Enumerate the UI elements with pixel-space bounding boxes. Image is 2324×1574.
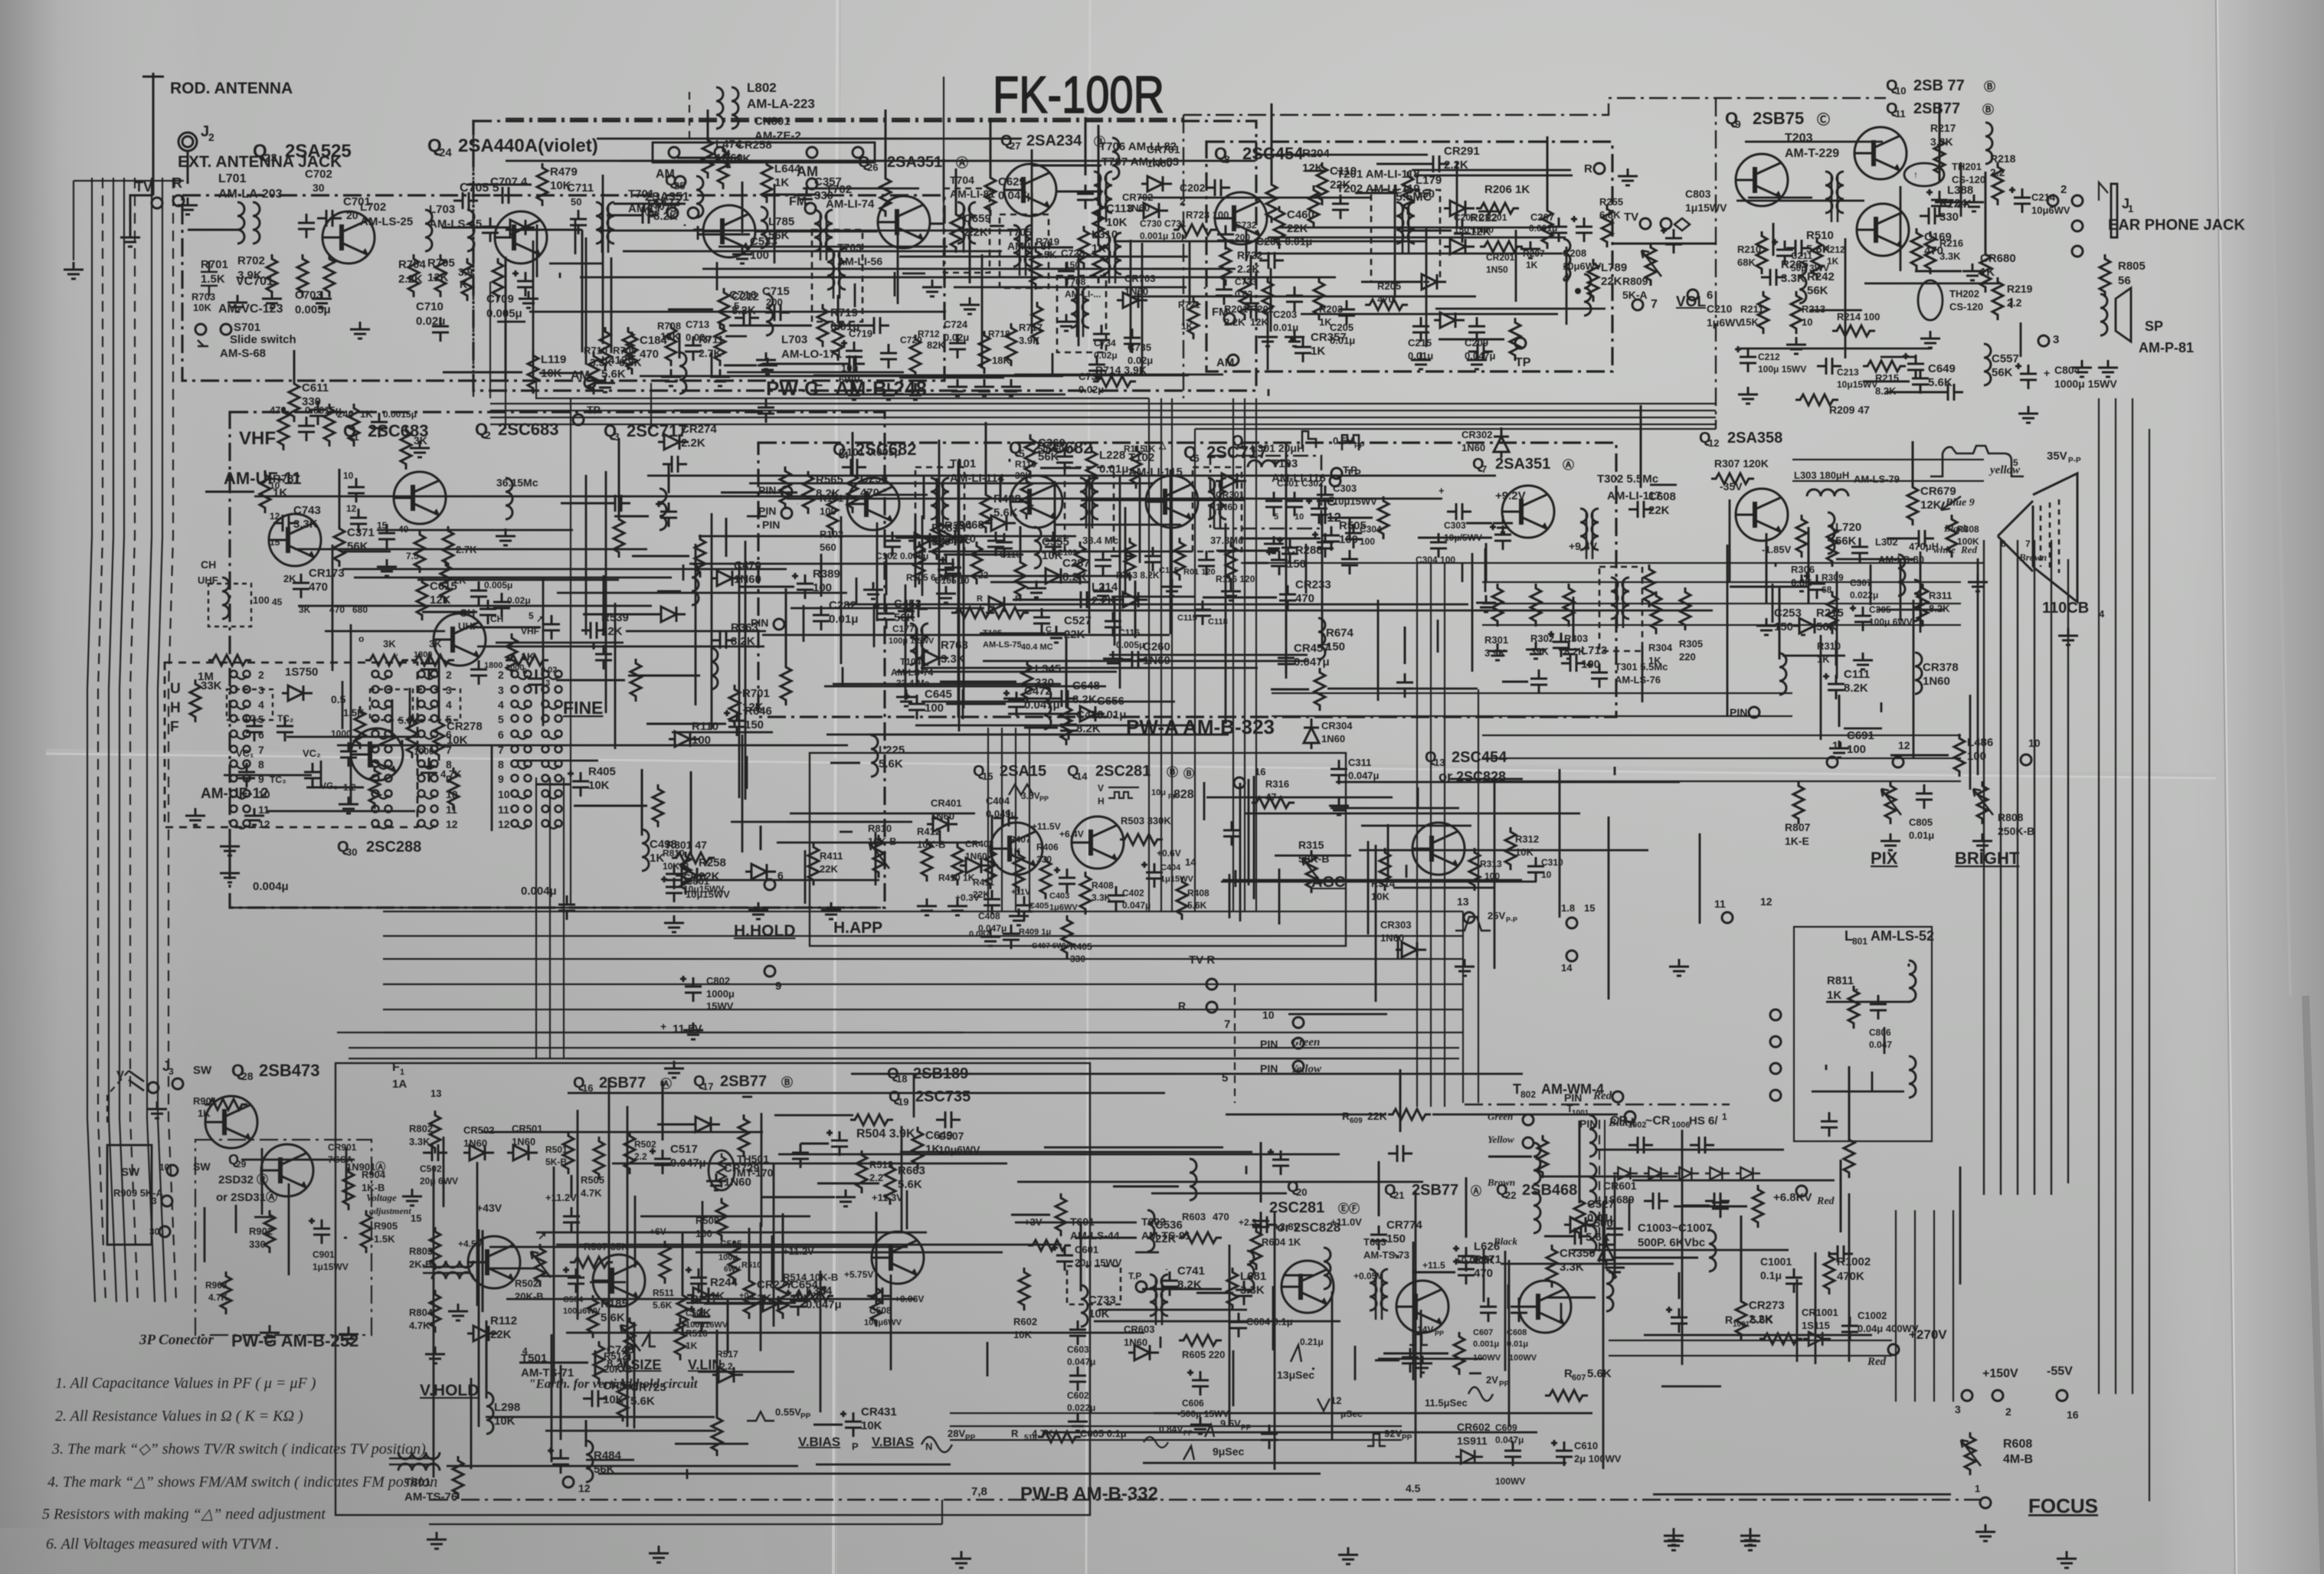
svg-text:0.1μ: 0.1μ <box>1760 1269 1782 1281</box>
svg-text:0.01μ: 0.01μ <box>1099 463 1128 476</box>
svg-text:C734: C734 <box>1094 338 1116 349</box>
svg-text:R112: R112 <box>490 1314 517 1327</box>
svg-text:1800: 1800 <box>484 661 502 670</box>
svg-text:C608: C608 <box>1648 490 1676 503</box>
svg-text:C536: C536 <box>1155 1219 1183 1232</box>
svg-text:2.2: 2.2 <box>869 1172 883 1183</box>
svg-text:R209 47: R209 47 <box>1829 404 1870 416</box>
svg-text:L626: L626 <box>1474 1240 1500 1253</box>
svg-text:2SC281: 2SC281 <box>1095 763 1151 780</box>
svg-text:ⒺⒻ: ⒺⒻ <box>1338 1203 1360 1215</box>
svg-text:CR502: CR502 <box>463 1124 494 1136</box>
svg-text:9μSec: 9μSec <box>1213 1445 1244 1458</box>
svg-text:17: 17 <box>702 1081 713 1092</box>
svg-text:Ⓑ: Ⓑ <box>1982 103 1994 116</box>
svg-text:330: 330 <box>1939 211 1959 224</box>
svg-text:T704: T704 <box>950 174 974 186</box>
svg-text:+6.4V: +6.4V <box>1059 829 1084 839</box>
svg-text:0.001μ: 0.001μ <box>1473 1340 1499 1349</box>
svg-text:2SC288: 2SC288 <box>366 839 421 856</box>
svg-text:C691: C691 <box>1847 729 1874 742</box>
svg-text:2SA15: 2SA15 <box>1000 763 1046 780</box>
svg-text:AM: AM <box>656 168 675 181</box>
svg-text:1N50: 1N50 <box>1486 264 1508 275</box>
svg-text:20K-B: 20K-B <box>515 1291 544 1302</box>
svg-text:R763: R763 <box>941 639 968 652</box>
svg-text:UHF: UHF <box>198 574 218 586</box>
svg-text:PP: PP <box>1402 1434 1412 1442</box>
svg-text:25V: 25V <box>1488 910 1505 921</box>
svg-text:+: + <box>2044 367 2050 379</box>
svg-text:2SA351: 2SA351 <box>887 154 942 171</box>
svg-text:+11.5: +11.5 <box>1422 1260 1445 1271</box>
svg-text:0.047μ: 0.047μ <box>1495 1435 1524 1445</box>
svg-text:K: K <box>460 278 467 290</box>
svg-text:C659: C659 <box>964 212 991 225</box>
svg-text:2V: 2V <box>1486 1374 1498 1386</box>
svg-text:0.55V: 0.55V <box>775 1406 801 1418</box>
svg-text:C470: C470 <box>734 559 761 572</box>
svg-text:C111: C111 <box>1844 668 1870 681</box>
svg-text:L228: L228 <box>1099 449 1125 462</box>
svg-text:R210: R210 <box>1737 244 1761 255</box>
svg-text:1μ15WV: 1μ15WV <box>1160 875 1193 884</box>
svg-text:4. The mark “△” shows FM/AM sw: 4. The mark “△” shows FM/AM switch ( ind… <box>47 1474 437 1491</box>
svg-text:6.8K: 6.8K <box>1599 209 1621 221</box>
svg-text:100: 100 <box>1581 658 1600 671</box>
svg-text:1K: 1K <box>650 852 664 865</box>
svg-text:10K: 10K <box>1106 216 1128 229</box>
svg-text:C287: C287 <box>1062 557 1090 570</box>
svg-text:11: 11 <box>498 803 509 816</box>
svg-text:470: 470 <box>1295 592 1314 605</box>
svg-text:1N60: 1N60 <box>715 152 743 165</box>
svg-text:SW: SW <box>121 1166 140 1179</box>
svg-text:10μ15WV: 10μ15WV <box>1333 496 1377 507</box>
svg-text:12K: 12K <box>1920 499 1942 512</box>
svg-text:22: 22 <box>1505 1189 1516 1201</box>
svg-text:1K: 1K <box>198 1108 211 1119</box>
svg-text:C502: C502 <box>420 1163 442 1174</box>
svg-text:CR431: CR431 <box>861 1405 897 1419</box>
svg-text:100μ: 100μ <box>718 1253 738 1262</box>
svg-text:L702: L702 <box>360 201 386 214</box>
svg-text:C282: C282 <box>829 599 856 612</box>
svg-text:2SB 77: 2SB 77 <box>1913 77 1965 94</box>
svg-text:2SB468: 2SB468 <box>1522 1182 1577 1199</box>
svg-text:or 2SD31Ⓐ: or 2SD31Ⓐ <box>216 1190 277 1204</box>
svg-text:7.5: 7.5 <box>406 551 419 561</box>
svg-text:R102: R102 <box>820 528 843 540</box>
svg-text:R258: R258 <box>699 856 726 869</box>
svg-text:C804: C804 <box>2054 364 2080 376</box>
svg-text:PP: PP <box>965 1434 976 1442</box>
svg-text:1.8: 1.8 <box>1561 902 1575 914</box>
svg-text:C615: C615 <box>430 580 457 593</box>
svg-text:C470: C470 <box>1076 708 1104 722</box>
svg-text:37.3Mc: 37.3Mc <box>1210 535 1243 546</box>
svg-text:R702: R702 <box>237 254 265 267</box>
svg-text:C803: C803 <box>1685 188 1711 200</box>
svg-text:PIN: PIN <box>758 484 776 496</box>
svg-text:CR357: CR357 <box>1311 331 1347 344</box>
svg-text:PP: PP <box>800 1412 811 1421</box>
svg-text:22K: 22K <box>1287 222 1308 235</box>
svg-text:9: 9 <box>498 773 504 785</box>
svg-text:FINE: FINE <box>563 698 603 718</box>
svg-text:HS 6/: HS 6/ <box>1689 1114 1718 1127</box>
svg-text:TV: TV <box>1624 211 1638 224</box>
svg-text:7,8: 7,8 <box>971 1485 987 1498</box>
svg-text:10: 10 <box>1262 1009 1275 1021</box>
svg-text:AM-UF-12: AM-UF-12 <box>201 786 269 802</box>
svg-text:16: 16 <box>2067 1409 2079 1421</box>
svg-text:R242: R242 <box>1807 270 1835 283</box>
svg-text:56K: 56K <box>1038 450 1059 463</box>
svg-text:R1002: R1002 <box>1837 1255 1871 1268</box>
svg-text:PW-C: PW-C <box>766 377 819 400</box>
svg-text:22K: 22K <box>1330 178 1351 191</box>
svg-text:1N60: 1N60 <box>1321 733 1345 744</box>
svg-text:0.01μ: 0.01μ <box>829 613 858 626</box>
svg-text:100: 100 <box>696 1228 712 1239</box>
svg-text:R502: R502 <box>515 1278 538 1289</box>
svg-text:607: 607 <box>1572 1373 1586 1383</box>
svg-text:3.3K: 3.3K <box>293 518 318 531</box>
svg-text:0.001μ 10μ: 0.001μ 10μ <box>1140 231 1187 241</box>
svg-text:+0.6V: +0.6V <box>1157 848 1181 859</box>
svg-text:CR901: CR901 <box>328 1142 357 1153</box>
svg-text:R603: R603 <box>1182 1211 1206 1222</box>
svg-text:C203: C203 <box>1273 309 1297 320</box>
svg-text:T302 5.5Mc: T302 5.5Mc <box>1597 473 1658 486</box>
svg-text:C703: C703 <box>295 289 322 302</box>
svg-text:R304: R304 <box>1648 642 1673 653</box>
svg-text:C555: C555 <box>1042 535 1069 548</box>
svg-text:5.6K: 5.6K <box>1187 900 1207 911</box>
svg-text:+11V: +11V <box>1011 888 1031 897</box>
svg-text:C184: C184 <box>640 334 668 347</box>
svg-text:C360: C360 <box>1038 437 1065 450</box>
svg-text:Red: Red <box>1592 1090 1612 1102</box>
svg-text:10K: 10K <box>494 1415 516 1428</box>
svg-text:Ⓒ: Ⓒ <box>1817 112 1830 127</box>
svg-text:6: 6 <box>1241 440 1246 452</box>
svg-text:FOCUS: FOCUS <box>2028 1494 2098 1517</box>
svg-text:1001: 1001 <box>1572 1109 1589 1118</box>
svg-text:Green: Green <box>1488 1111 1513 1122</box>
svg-text:R787: R787 <box>273 473 300 486</box>
svg-text:R904: R904 <box>362 1169 386 1180</box>
svg-text:0.01μ: 0.01μ <box>1909 830 1934 841</box>
svg-text:10K: 10K <box>447 734 468 747</box>
svg-text:0.004μ: 0.004μ <box>253 880 289 893</box>
svg-text:R505: R505 <box>1339 519 1367 532</box>
svg-text:3.3K: 3.3K <box>941 653 965 666</box>
svg-text:+9.4V: +9.4V <box>1569 540 1598 552</box>
svg-text:C253: C253 <box>1774 607 1802 620</box>
svg-text:R217: R217 <box>1930 122 1956 134</box>
svg-text:7: 7 <box>1481 463 1487 475</box>
svg-text:0.005μ: 0.005μ <box>486 307 522 320</box>
svg-text:C303: C303 <box>1333 483 1357 494</box>
svg-text:6. All Voltages measured with: 6. All Voltages measured with VTVM . <box>46 1536 279 1553</box>
svg-text:+11.0V: +11.0V <box>1331 1216 1362 1228</box>
svg-text:56K: 56K <box>1835 535 1857 548</box>
svg-text:2SC281: 2SC281 <box>1269 1199 1324 1216</box>
svg-text:AM-P-81: AM-P-81 <box>2139 340 2194 355</box>
svg-text:L789: L789 <box>1601 261 1627 274</box>
svg-text:2SB77: 2SB77 <box>720 1073 767 1090</box>
svg-text:24: 24 <box>439 146 452 159</box>
svg-text:56: 56 <box>2118 274 2131 287</box>
svg-text:white: white <box>1933 544 1956 555</box>
svg-text:C357: C357 <box>814 175 842 188</box>
svg-text:+5.75V: +5.75V <box>844 1269 873 1280</box>
svg-text:0.02μ: 0.02μ <box>507 595 531 606</box>
svg-text:10K: 10K <box>1371 891 1389 902</box>
svg-text:R315: R315 <box>1298 839 1324 851</box>
svg-text:2.2K: 2.2K <box>964 226 988 239</box>
svg-text:Slide switch: Slide switch <box>230 333 296 346</box>
svg-text:1N60: 1N60 <box>1147 157 1173 169</box>
svg-text:R405: R405 <box>1070 941 1092 952</box>
svg-text:R408: R408 <box>1092 880 1114 891</box>
svg-text:N: N <box>925 1441 932 1452</box>
svg-text:CN801: CN801 <box>754 115 790 128</box>
svg-text:470: 470 <box>270 404 286 416</box>
svg-text:4: 4 <box>258 699 264 711</box>
svg-text:20: 20 <box>1296 1186 1307 1198</box>
svg-text:8: 8 <box>258 758 264 771</box>
svg-text:C403: C403 <box>1049 892 1069 901</box>
svg-text:0.0015μ: 0.0015μ <box>383 409 417 420</box>
svg-text:VC₂: VC₂ <box>303 748 321 759</box>
svg-text:470: 470 <box>1213 1211 1229 1222</box>
svg-text:7: 7 <box>258 744 264 756</box>
svg-text:10: 10 <box>1295 512 1304 522</box>
svg-text:R712: R712 <box>918 329 940 339</box>
svg-text:5.6K: 5.6K <box>601 1311 625 1324</box>
svg-text:23: 23 <box>264 152 277 165</box>
svg-text:R405: R405 <box>588 765 616 778</box>
svg-text:Ⓐ: Ⓐ <box>956 155 968 170</box>
svg-text:6: 6 <box>1707 289 1713 302</box>
svg-text:0.5: 0.5 <box>331 693 346 705</box>
svg-text:CR303: CR303 <box>1380 919 1411 931</box>
svg-text:PIX: PIX <box>1871 849 1898 868</box>
svg-text:92V: 92V <box>1384 1428 1402 1439</box>
svg-text:1K: 1K <box>686 1340 698 1351</box>
svg-text:500P. 6KVbc: 500P. 6KVbc <box>1638 1236 1705 1249</box>
svg-text:1N60: 1N60 <box>734 573 761 586</box>
svg-text:100: 100 <box>813 581 832 594</box>
svg-text:15K: 15K <box>1740 316 1759 328</box>
svg-text:C611: C611 <box>302 381 329 394</box>
svg-text:45: 45 <box>272 597 283 607</box>
svg-text:C210: C210 <box>1707 303 1733 315</box>
svg-text:2. All Resistance Values in Ω: 2. All Resistance Values in Ω ( K = KΩ ) <box>55 1408 303 1425</box>
svg-text:2.7K: 2.7K <box>699 347 722 359</box>
svg-text:C260: C260 <box>1143 640 1170 653</box>
svg-text:TC₁: TC₁ <box>244 713 260 724</box>
svg-text:1006: 1006 <box>1671 1121 1690 1130</box>
svg-text:H.APP: H.APP <box>833 919 882 937</box>
svg-text:TH202: TH202 <box>1949 288 1979 299</box>
svg-text:2: 2 <box>2061 183 2067 196</box>
svg-text:L301 20μH: L301 20μH <box>1251 442 1304 454</box>
svg-text:C460: C460 <box>1287 208 1314 221</box>
svg-text:4: 4 <box>522 1346 528 1356</box>
svg-text:36.15Mc: 36.15Mc <box>496 476 538 489</box>
svg-text:C527: C527 <box>1064 614 1092 627</box>
svg-text:4: 4 <box>2099 608 2105 620</box>
svg-text:R602: R602 <box>1013 1316 1037 1327</box>
svg-text:R511: R511 <box>653 1288 674 1298</box>
svg-text:50: 50 <box>571 196 581 208</box>
svg-text:C215: C215 <box>1408 337 1432 349</box>
svg-text:150: 150 <box>1774 620 1793 633</box>
svg-text:TP: TP <box>1515 356 1531 369</box>
svg-text:10μ15WV: 10μ15WV <box>686 888 730 900</box>
svg-text:9.5V: 9.5V <box>1220 1418 1241 1429</box>
svg-text:56K: 56K <box>347 540 368 553</box>
svg-text:VC₁: VC₁ <box>236 748 254 759</box>
svg-text:↗: ↗ <box>538 1229 547 1242</box>
svg-text:TV R: TV R <box>1189 954 1215 967</box>
svg-text:R116 120: R116 120 <box>1216 574 1255 584</box>
svg-text:12: 12 <box>578 1482 591 1494</box>
svg-text:R311: R311 <box>1929 590 1952 601</box>
svg-text:R: R <box>977 594 983 604</box>
svg-text:2.2K: 2.2K <box>681 437 705 450</box>
svg-text:100μ6WV: 100μ6WV <box>864 1318 902 1327</box>
svg-text:T.P: T.P <box>1347 467 1361 479</box>
svg-text:R305: R305 <box>1679 638 1703 650</box>
svg-text:R663: R663 <box>898 1164 925 1177</box>
svg-text:H.HOLD: H.HOLD <box>734 922 796 940</box>
svg-text:BRIGHT: BRIGHT <box>1955 849 2020 868</box>
svg-text:2SA440A(violet): 2SA440A(violet) <box>458 136 598 156</box>
svg-text:C743: C743 <box>293 504 321 517</box>
svg-text:100WV: 100WV <box>1509 1353 1537 1363</box>
svg-text:0.047μ: 0.047μ <box>1067 1356 1095 1367</box>
svg-text:Red: Red <box>1867 1356 1887 1368</box>
svg-text:CR273: CR273 <box>1749 1299 1785 1312</box>
svg-text:1μ15WV: 1μ15WV <box>1685 201 1727 214</box>
svg-text:0.01μ: 0.01μ <box>830 320 859 333</box>
svg-text:L179: L179 <box>1416 174 1442 187</box>
svg-text:1: 1 <box>1722 1111 1727 1122</box>
svg-text:C101 0.005μ: C101 0.005μ <box>839 446 901 458</box>
svg-text:2.2K: 2.2K <box>1224 316 1245 328</box>
svg-text:CR291: CR291 <box>1444 145 1480 158</box>
svg-text:C603: C603 <box>1067 1344 1089 1355</box>
svg-text:1N60: 1N60 <box>1380 932 1404 944</box>
svg-text:22K: 22K <box>820 863 838 875</box>
svg-text:C404: C404 <box>1160 863 1181 872</box>
svg-text:2: 2 <box>498 669 504 681</box>
svg-text:C517: C517 <box>670 1143 698 1156</box>
svg-text:3.5V: 3.5V <box>1021 790 1040 801</box>
svg-text:L310: L310 <box>1092 228 1118 241</box>
svg-text:CR274: CR274 <box>681 423 717 436</box>
svg-text:↘: ↘ <box>1392 1249 1400 1261</box>
svg-text:5: 5 <box>529 610 534 621</box>
svg-text:7: 7 <box>2025 538 2031 549</box>
svg-text:H: H <box>1098 796 1105 807</box>
svg-text:2SC683: 2SC683 <box>498 420 559 439</box>
svg-text:2SB75: 2SB75 <box>1753 109 1804 128</box>
svg-text:13μSec: 13μSec <box>1277 1369 1314 1381</box>
svg-text:2: 2 <box>2005 1405 2011 1418</box>
svg-text:V: V <box>1098 783 1104 794</box>
svg-text:C110: C110 <box>1330 165 1357 178</box>
svg-text:1000μ 15WV: 1000μ 15WV <box>2054 378 2117 390</box>
svg-text:82K: 82K <box>927 339 945 351</box>
svg-text:11: 11 <box>1714 898 1726 910</box>
svg-text:CR701: CR701 <box>1147 143 1180 155</box>
svg-text:R215: R215 <box>1816 607 1844 620</box>
svg-text:C713: C713 <box>686 319 709 330</box>
svg-text:R802: R802 <box>409 1123 433 1134</box>
svg-text:FK-100R: FK-100R <box>993 66 1164 124</box>
svg-text:R704: R704 <box>398 258 427 271</box>
svg-text:PIN: PIN <box>762 519 780 531</box>
svg-text:CR288: CR288 <box>1287 544 1323 557</box>
svg-text:1μ6WV: 1μ6WV <box>1707 316 1743 329</box>
svg-text:C645: C645 <box>925 688 952 701</box>
svg-text:2K-B: 2K-B <box>409 1258 432 1270</box>
svg-text:C607: C607 <box>1473 1328 1493 1337</box>
svg-text:adjustment: adjustment <box>369 1206 411 1216</box>
svg-text:R502: R502 <box>634 1139 656 1150</box>
svg-text:0.004μ: 0.004μ <box>521 885 557 898</box>
svg-text:10K: 10K <box>588 779 610 792</box>
svg-text:AM-S-68: AM-S-68 <box>220 347 266 360</box>
svg-text:56K: 56K <box>1807 284 1828 297</box>
svg-text:R213: R213 <box>1802 303 1825 315</box>
svg-text:1800: 1800 <box>414 650 432 659</box>
svg-text:11.5μSec: 11.5μSec <box>1425 1397 1468 1409</box>
svg-text:8.2K: 8.2K <box>1844 682 1868 695</box>
svg-text:+9.2V: +9.2V <box>1495 489 1526 502</box>
svg-text:2SA525: 2SA525 <box>285 141 352 162</box>
svg-text:R501: R501 <box>545 1144 568 1155</box>
svg-text:F: F <box>170 719 179 735</box>
svg-text:15: 15 <box>1584 902 1595 914</box>
svg-text:C303: C303 <box>1444 520 1466 531</box>
svg-text:560: 560 <box>820 542 836 553</box>
svg-text:+: + <box>1439 485 1445 496</box>
svg-text:ROD. ANTENNA: ROD. ANTENNA <box>170 80 293 97</box>
svg-text:470: 470 <box>1377 293 1394 305</box>
svg-text:3.3K: 3.3K <box>409 1136 430 1147</box>
svg-text:Ⓐ: Ⓐ <box>1471 1185 1481 1197</box>
svg-text:C212: C212 <box>732 290 759 303</box>
svg-text:8: 8 <box>498 758 504 771</box>
svg-text:R701: R701 <box>742 687 770 700</box>
svg-text:L703: L703 <box>429 203 455 216</box>
svg-text:L474: L474 <box>715 138 742 151</box>
svg-text:330: 330 <box>814 189 833 202</box>
svg-text:R307 120K: R307 120K <box>1714 457 1769 470</box>
svg-text:10: 10 <box>1895 85 1906 97</box>
svg-text:T801: T801 <box>404 1476 430 1489</box>
svg-text:C702: C702 <box>305 168 332 181</box>
svg-text:12: 12 <box>1898 739 1910 751</box>
svg-text:2.2: 2.2 <box>2007 296 2022 309</box>
